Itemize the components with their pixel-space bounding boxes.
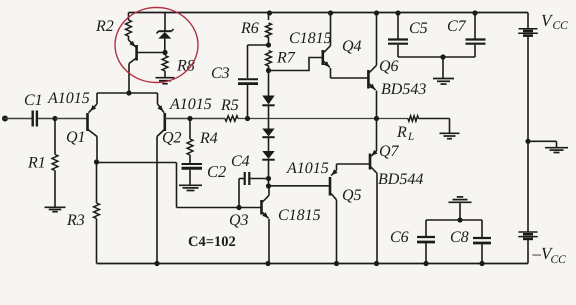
wire R8 to ground	[164, 71, 166, 77]
svg-text:Q5: Q5	[342, 187, 362, 204]
node Q5 collector on rail	[334, 261, 339, 266]
node link junction	[440, 54, 445, 59]
label R8	[176, 58, 195, 75]
wire between junctions	[268, 179, 270, 187]
resistor R2	[126, 20, 132, 36]
svg-text:R: R	[396, 124, 407, 141]
resistor R4	[187, 139, 193, 155]
wire R5 to output node	[238, 118, 408, 120]
capacitor C7	[466, 40, 486, 44]
diode D2	[262, 129, 274, 138]
svg-text:R4: R4	[199, 130, 218, 147]
label Vcc	[541, 11, 568, 32]
transistor Q2 base bar	[164, 113, 167, 131]
capacitor C1	[33, 111, 37, 127]
svg-text:A1015: A1015	[286, 160, 329, 177]
label RL	[396, 124, 414, 143]
wire R6 to node	[268, 37, 270, 46]
ground above C6/C8	[449, 197, 472, 202]
capacitor C8	[473, 238, 491, 243]
wire C4 right leg	[250, 178, 268, 180]
wire tap to D2	[268, 119, 270, 129]
battery -Vcc	[518, 232, 538, 239]
label Q3	[229, 212, 249, 229]
label C2	[207, 162, 226, 181]
wire R3 leg	[96, 162, 98, 203]
node input terminal	[2, 116, 8, 122]
capacitor C4	[245, 172, 250, 185]
svg-text:Q2: Q2	[162, 130, 182, 147]
node Q4 collector on rail	[328, 10, 333, 15]
transistor Q6 emitter	[369, 84, 376, 119]
svg-text:C3: C3	[211, 65, 230, 82]
label C1815 for Q3	[278, 207, 321, 224]
label C5	[409, 20, 428, 37]
svg-text:C2: C2	[207, 162, 226, 181]
label A1015 for Q1	[47, 90, 90, 107]
wire jog down	[176, 163, 178, 208]
capacitor C3	[238, 79, 258, 83]
node Q2 collector on rail	[154, 261, 159, 266]
transistor Q5 collector	[331, 194, 337, 264]
label Q5	[342, 187, 362, 204]
wire R4 to C2	[189, 155, 191, 163]
svg-text:A1015: A1015	[47, 90, 90, 107]
label C1815 for Q4	[289, 30, 332, 47]
label Q6	[379, 58, 399, 75]
label R3	[66, 212, 85, 229]
node R7-diode junction	[266, 68, 271, 73]
wire D1 to tap	[268, 106, 270, 119]
transistor Q6 collector	[369, 13, 376, 73]
label Q1	[66, 129, 86, 146]
ground under RL	[440, 133, 460, 138]
wire C2 to ground	[189, 170, 191, 185]
resistor RL	[408, 116, 419, 121]
wire D2 to D3	[268, 138, 270, 151]
transistor Qx emitter	[129, 36, 136, 47]
wire diode node to Q5 base	[269, 185, 330, 187]
label C6	[390, 229, 409, 246]
svg-text:C5: C5	[409, 20, 428, 37]
label -Vcc	[532, 244, 567, 266]
ground under R1	[45, 207, 66, 211]
node C4-diode junction	[266, 176, 271, 181]
label BD544	[378, 171, 423, 188]
wire node to Q1 base	[55, 118, 88, 120]
diode D3	[262, 151, 274, 160]
node C8 on rail	[479, 261, 484, 266]
svg-text:CC: CC	[551, 254, 567, 266]
node C6C8 ground junction	[457, 217, 462, 222]
transistor Q6 base bar	[367, 70, 370, 89]
node Q6 collector on rail	[374, 10, 379, 15]
svg-text:C1: C1	[24, 92, 43, 109]
resistor R1	[52, 155, 58, 171]
wire Q3 base	[239, 207, 262, 209]
resistor R6	[266, 23, 272, 38]
capacitor C2	[182, 164, 203, 168]
transistor Q1 base bar	[86, 113, 89, 131]
node R4 tap	[187, 116, 192, 121]
label C1	[24, 92, 43, 109]
label BD543	[381, 81, 426, 98]
svg-text:R5: R5	[220, 97, 239, 114]
wire D3 to C4 node	[268, 161, 270, 179]
wire C8 to rail	[481, 244, 483, 263]
label R1	[27, 155, 46, 172]
transistor Q4 collector	[324, 13, 331, 53]
svg-text:R1: R1	[27, 155, 46, 172]
wire R4 tap down	[189, 119, 191, 140]
battery +Vcc	[518, 29, 538, 36]
label A1015 for Q5	[286, 160, 329, 177]
wire battery to bottom rail	[527, 239, 529, 263]
wire collector node to jog	[97, 162, 177, 164]
wire jog to Q3 base	[177, 207, 240, 209]
wire tap to ground	[528, 141, 557, 147]
node Q7 collector on rail	[374, 261, 379, 266]
ground under C5/C7	[433, 79, 454, 85]
wire rail corner to R2	[128, 13, 130, 21]
wire battery to right rail	[527, 36, 529, 141]
svg-text:C4: C4	[231, 153, 250, 170]
svg-text:R3: R3	[66, 212, 85, 229]
resistor R8	[162, 56, 168, 72]
node tail junction	[126, 90, 131, 95]
wire to D1	[268, 71, 270, 96]
wire C1 to node	[38, 118, 55, 120]
node Q3 collector junction	[266, 183, 271, 188]
ground under C2	[179, 185, 202, 190]
transistor Q3 collector	[263, 186, 270, 202]
wire diff-pair emitter rail	[97, 92, 158, 94]
transistor Q5 base bar	[329, 177, 332, 196]
node C6 on rail	[423, 261, 428, 266]
wire R7 to node	[268, 66, 270, 71]
transistor Q5 emitter	[331, 164, 338, 176]
transistor Q7 emitter	[371, 119, 378, 157]
node Q3 base junction	[236, 205, 241, 210]
wire rail to C7	[474, 13, 476, 39]
svg-text:R2: R2	[95, 18, 114, 35]
wire C3 to tap	[247, 85, 249, 119]
label R2	[95, 18, 114, 35]
capacitor C5	[388, 40, 408, 44]
svg-text:CC: CC	[553, 20, 569, 32]
zener diode ZD	[157, 29, 174, 53]
transistor Qx collector	[129, 58, 136, 93]
transistor Q3 base bar	[260, 200, 263, 215]
label R4	[199, 130, 218, 147]
svg-text:C8: C8	[450, 229, 469, 246]
transistor Q7 collector	[371, 167, 377, 264]
node R6-R7 junction	[266, 42, 271, 47]
wire rail corner to battery	[527, 13, 529, 29]
wire C6 to rail	[425, 243, 427, 263]
transistor Q4 emitter	[324, 61, 331, 78]
label C4=102 note	[188, 234, 236, 250]
capacitor C6	[417, 237, 435, 242]
wire R3 to rail	[96, 219, 98, 264]
svg-text:Q4: Q4	[342, 38, 362, 55]
svg-text:C7: C7	[447, 18, 467, 35]
svg-text:Q6: Q6	[379, 58, 399, 75]
label C3	[211, 65, 230, 82]
svg-text:C4=102: C4=102	[188, 234, 236, 250]
wire link to C6	[425, 220, 427, 236]
wire C5-C7 link	[398, 56, 475, 58]
node zener-R8 junction	[162, 50, 167, 55]
node C3 tap	[245, 116, 250, 121]
label R6	[240, 20, 259, 37]
label A1015 for Q2	[169, 96, 212, 113]
wire junction to inverted ground	[459, 202, 461, 220]
wire Q4 emitter to Q6 base	[331, 77, 369, 79]
svg-text:Q1: Q1	[66, 129, 86, 146]
wire right rail lower	[527, 141, 529, 231]
transistor Q2 emitter	[157, 93, 164, 113]
wire Q7 base	[337, 163, 371, 165]
node R6 on rail	[267, 10, 272, 15]
transistor Q3 emitter	[262, 212, 269, 263]
transistor Q7 base bar	[369, 154, 372, 170]
transistor Q4 base bar	[321, 50, 324, 65]
ground under R8	[156, 78, 175, 84]
wire C4 left leg	[239, 179, 244, 208]
node output junction	[374, 116, 379, 121]
wire link to ground	[442, 57, 444, 78]
svg-text:A1015: A1015	[169, 96, 212, 113]
transistor Q1 emitter	[89, 93, 98, 113]
svg-text:BD544: BD544	[378, 171, 423, 188]
wire to C3	[248, 45, 269, 78]
svg-text:C6: C6	[390, 229, 409, 246]
transistor Q1 collector	[88, 130, 97, 163]
node Q1 collector junction	[94, 159, 99, 164]
wire C5 to link	[397, 45, 399, 57]
svg-text:C1815: C1815	[278, 207, 321, 224]
transistor Qx base bar	[135, 45, 138, 61]
resistor R5	[225, 116, 238, 121]
svg-text:Q3: Q3	[229, 212, 249, 229]
wire R1 to ground	[54, 171, 56, 207]
label R5	[220, 97, 239, 114]
wire node down to R1	[54, 119, 56, 155]
label Q4	[342, 38, 362, 55]
node diode-chain crossing	[0, 0, 1, 1]
wire rail to R6	[268, 13, 270, 21]
node C7 on rail	[472, 10, 477, 15]
wire bottom -Vcc rail	[97, 263, 529, 265]
svg-text:C1815: C1815	[289, 30, 332, 47]
svg-text:R6: R6	[240, 20, 259, 37]
svg-text:L: L	[407, 131, 414, 143]
svg-text:BD543: BD543	[381, 81, 426, 98]
wire zener from rail	[164, 13, 166, 32]
label Q2	[162, 130, 182, 147]
wire C7 to link	[474, 45, 476, 57]
resistor R7	[266, 51, 272, 67]
node ground tap	[525, 139, 530, 144]
wire Q2 base to R5	[165, 118, 225, 120]
label Q7	[379, 143, 400, 160]
wire rail to C5	[397, 13, 399, 39]
svg-text:R7: R7	[276, 50, 296, 67]
wire C6-C8 link	[426, 219, 482, 221]
wire Qx base to zener node	[137, 52, 165, 54]
wire RL to ground	[419, 119, 450, 133]
ground right tap	[545, 148, 568, 153]
wire Q4 base jog	[269, 58, 323, 71]
transistor Q2 collector	[157, 130, 164, 264]
highlight red circle	[115, 8, 198, 83]
resistor R3	[94, 203, 100, 219]
wire link to C8	[481, 220, 483, 237]
node C5 on rail	[395, 10, 400, 15]
label C7	[447, 18, 467, 35]
wire input to C1	[5, 118, 32, 120]
diode D1	[262, 96, 274, 106]
label C8	[450, 229, 469, 246]
node Q3 emitter on rail	[265, 261, 270, 266]
wire top +Vcc rail	[129, 12, 529, 14]
svg-text:Q7: Q7	[379, 143, 400, 160]
label C4	[231, 153, 250, 170]
node input junction	[52, 116, 57, 121]
label R7	[276, 50, 296, 67]
